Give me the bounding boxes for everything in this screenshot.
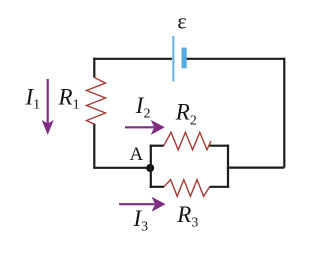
resistor R3 zigzag (164, 180, 210, 197)
wire parallel-combination left bar (150, 145, 152, 188)
wire left vertical lower (R1 down to bottom-left corner) (93, 125, 95, 168)
wire top branch right stub (209, 145, 229, 147)
wire bottom branch left stub (150, 186, 164, 188)
battery short thick plate (positive terminal) (182, 48, 187, 69)
svg-text:I1: I1 (25, 85, 41, 113)
wire top-left segment (top-left corner to battery) (94, 58, 172, 59)
current arrow I3 (rightward) (119, 197, 165, 211)
svg-text:ε: ε (177, 8, 186, 33)
wire right vertical side (283, 58, 285, 168)
svg-text:A: A (130, 144, 144, 165)
resistor R2 zigzag (164, 132, 211, 150)
wire bottom branch right stub (210, 186, 230, 188)
wire top branch left stub (150, 145, 164, 147)
svg-text:R1: R1 (58, 85, 80, 113)
svg-text:I3: I3 (133, 206, 149, 235)
svg-text:R2: R2 (175, 99, 197, 128)
resistor R1 zigzag (87, 78, 106, 125)
svg-text:I2: I2 (135, 93, 151, 122)
node A junction dot (146, 164, 154, 172)
wire middle-right horizontal (right bar to right side) (227, 167, 284, 169)
wire bottom-left horizontal (corner to node A) (93, 167, 150, 169)
battery long thin plate (negative terminal) (172, 36, 174, 81)
current arrow I1 (downward) (42, 79, 53, 134)
wire left vertical upper stub (corner down to R1) (93, 58, 95, 78)
wire parallel-combination right bar (227, 145, 229, 188)
current arrow I2 (rightward) (125, 121, 164, 135)
svg-text:R3: R3 (176, 202, 198, 231)
wire top-right segment (battery to top-right corner) (187, 58, 285, 60)
